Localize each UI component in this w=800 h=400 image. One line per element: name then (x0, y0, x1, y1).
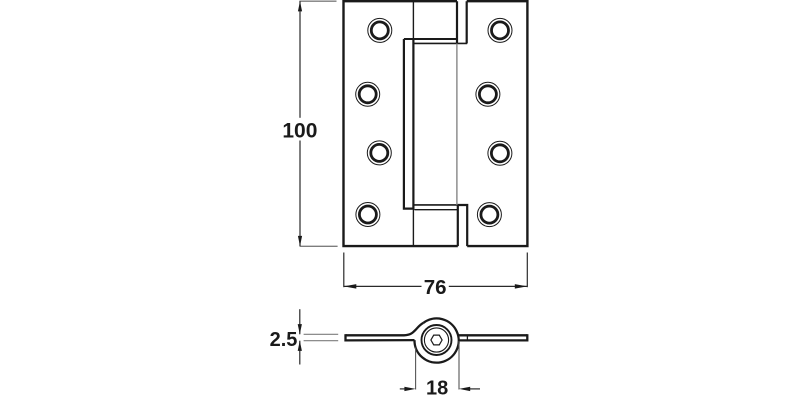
dim 76 line left segment (344, 285, 422, 287)
dim 2.5 lower extension line (304, 340, 339, 342)
profile barrel middle circle (422, 325, 452, 355)
knuckle top horizontal H1 (404, 38, 457, 40)
dim 18 arrow left (459, 387, 470, 391)
profile right leaf top line (458, 334, 527, 336)
dim 2.5 line upper segment (299, 309, 301, 334)
dim 76 arrow right (515, 284, 528, 289)
left knuckle slot U (404, 39, 415, 209)
profile barrel inner circle (424, 328, 448, 352)
profile right leaf end cap (526, 334, 528, 341)
dim 2.5 line lower segment (299, 341, 301, 365)
profile left leaf end cap (344, 334, 346, 341)
dim 100 line upper segment (299, 1, 301, 118)
dim 76 left extension line (343, 253, 345, 288)
profile hex pin socket (431, 335, 442, 345)
dim 76 right extension line (526, 253, 528, 288)
screw hole L3 (367, 141, 391, 165)
dim 2.5 arrow up (298, 341, 302, 351)
profile right knuckle end tick (466, 335, 468, 340)
screw hole L1 (368, 18, 392, 42)
svg-text:100: 100 (282, 120, 317, 143)
knuckle centre line (grey) (456, 43, 458, 205)
top knuckle notch (457, 1, 467, 43)
knuckle top horizontal H2 (notch bottom) (413, 42, 467, 44)
svg-text:2.5: 2.5 (270, 329, 298, 351)
profile barrel outer curl (414, 318, 458, 362)
screw hole L4 (356, 203, 380, 227)
profile left leaf top line with S-curve into barrel (346, 323, 424, 335)
knuckle bottom horizontal H3 (notch top) (413, 204, 467, 206)
dim 76 line right segment (449, 285, 528, 287)
screw hole R2 (476, 82, 500, 106)
svg-text:76: 76 (424, 276, 447, 299)
knuckle bottom horizontal H4 (415, 209, 458, 211)
dim 2.5 arrow down (298, 324, 302, 334)
svg-text:18: 18 (426, 377, 448, 399)
left leaf fold line (full height) (412, 1, 414, 246)
dim 100 bottom extension line (300, 245, 338, 247)
dim 18 left tail (400, 388, 407, 390)
dim 18 left extension line (415, 348, 417, 390)
dim 2.5 upper extension line (304, 333, 339, 335)
screw hole L2 (356, 82, 380, 106)
profile left leaf bottom line (346, 339, 415, 342)
hinge front view outer plate left leaf outline (344, 1, 458, 246)
dim 76 arrow left (344, 284, 357, 289)
screw hole R3 (488, 141, 512, 165)
dim 100 arrow up (298, 1, 302, 11)
dim 100 top extension line (299, 0, 336, 2)
dim 100 line lower segment (299, 141, 301, 247)
bottom knuckle notch (458, 205, 467, 246)
dim 18 right extension line (458, 341, 460, 390)
hinge front view outer plate right leaf outline (467, 1, 528, 246)
profile right leaf bottom line (458, 339, 527, 341)
dim 18 arrow right (404, 387, 415, 391)
dim 100 arrow down (298, 236, 302, 246)
screw hole R4 (477, 203, 501, 227)
dim 18 right tail (468, 388, 480, 390)
screw hole R1 (488, 18, 512, 42)
